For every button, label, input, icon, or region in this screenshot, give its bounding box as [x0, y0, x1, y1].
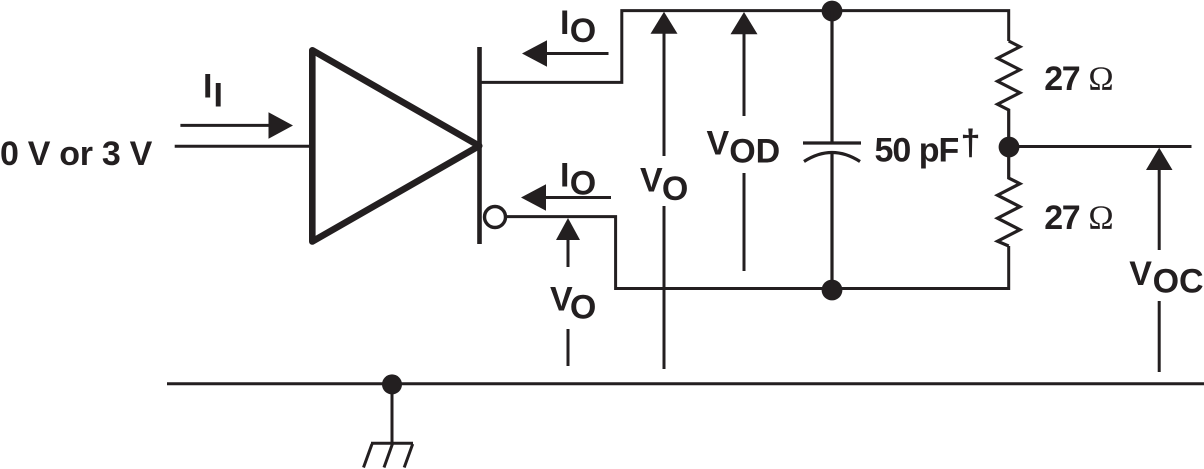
svg-text:OC: OC: [1153, 263, 1204, 301]
current arrow IO (bottom) head: [521, 184, 546, 210]
ground symbol hatch 3: [404, 444, 413, 468]
label II: [203, 68, 223, 115]
svg-text:I: I: [203, 68, 212, 106]
junction node dot (top rail / C1): [822, 1, 843, 22]
ground stem: [391, 384, 394, 443]
svg-text:V: V: [707, 125, 730, 163]
label VOC: [1129, 255, 1203, 301]
resistor R2 zigzag: [998, 157, 1020, 246]
measurement arrow VOC upper line: [1158, 169, 1161, 250]
driver U1 triangle: [312, 50, 479, 241]
current arrow IO (top) line: [545, 52, 609, 55]
label VO (single-ended): [640, 162, 688, 208]
capacitor C1 bottom lead: [830, 154, 833, 291]
ground symbol hatch 1: [364, 444, 373, 468]
inverting output bubble: [485, 207, 506, 228]
ground junction dot: [382, 374, 402, 394]
ground symbol bar: [371, 442, 413, 445]
label VOD: [707, 125, 781, 171]
current arrow IO (bottom) line: [543, 196, 611, 199]
svg-text:Ω: Ω: [1088, 60, 1113, 97]
junction node dot (bottom rail / C1): [822, 280, 843, 301]
svg-text:†: †: [961, 122, 981, 163]
svg-text:27: 27: [1044, 60, 1079, 98]
measurement arrow VOD head at top rail: [731, 12, 758, 34]
svg-text:Ω: Ω: [1088, 199, 1113, 236]
wire: midpoint node to VOC tap: [1009, 145, 1192, 148]
wire: inverting output, down to bottom rail, bottom rail to R2: [507, 217, 1009, 289]
measurement arrow VO (single-ended) head at top rail: [651, 12, 678, 34]
ground symbol hatch 2: [384, 444, 392, 468]
current arrow II head: [269, 112, 294, 138]
label IO bottom: [560, 157, 596, 203]
current arrow IO (top) head: [522, 40, 547, 66]
svg-text:50 pF: 50 pF: [875, 132, 959, 170]
label VO (inverting output): [550, 281, 596, 327]
svg-text:V: V: [1129, 255, 1152, 293]
capacitor C1 top plate: [803, 141, 861, 144]
measurement arrow VOD lower line: [743, 173, 746, 271]
ground rail wire: [167, 382, 1204, 385]
svg-text:O: O: [570, 165, 596, 203]
svg-text:OD: OD: [729, 132, 780, 170]
measurement arrow VOC head: [1146, 148, 1173, 170]
measurement VO dashed continuation: [567, 329, 570, 366]
svg-text:27: 27: [1044, 199, 1079, 237]
svg-text:O: O: [570, 289, 596, 327]
wire: noninverting output, up to top rail, top rail to R1: [481, 11, 1009, 83]
svg-text:O: O: [662, 170, 688, 208]
current arrow II line: [180, 124, 270, 127]
svg-text:I: I: [560, 157, 569, 195]
svg-text:O: O: [570, 12, 596, 50]
measurement arrow VO (inverting output) head: [556, 218, 580, 240]
label IO top: [560, 4, 596, 50]
svg-text:0 V or 3 V: 0 V or 3 V: [0, 135, 153, 173]
midpoint node dot: [999, 137, 1020, 158]
measurement arrow VO (inverting output) line: [567, 239, 570, 267]
capacitor C1 top lead: [830, 11, 833, 142]
measurement arrow VOD upper line: [743, 34, 746, 117]
svg-text:I: I: [560, 4, 569, 42]
measurement arrow VO (single-ended) upper line: [663, 33, 666, 156]
measurement arrow VOC lower line: [1158, 301, 1161, 372]
capacitor C1 curved plate: [804, 153, 860, 162]
svg-text:V: V: [640, 162, 663, 200]
svg-text:I: I: [214, 76, 223, 114]
driver output bar: [477, 47, 482, 244]
measurement arrow VO (single-ended) lower line: [663, 206, 666, 369]
wire: input lead to driver: [175, 145, 310, 148]
resistor R1 zigzag: [998, 41, 1020, 137]
